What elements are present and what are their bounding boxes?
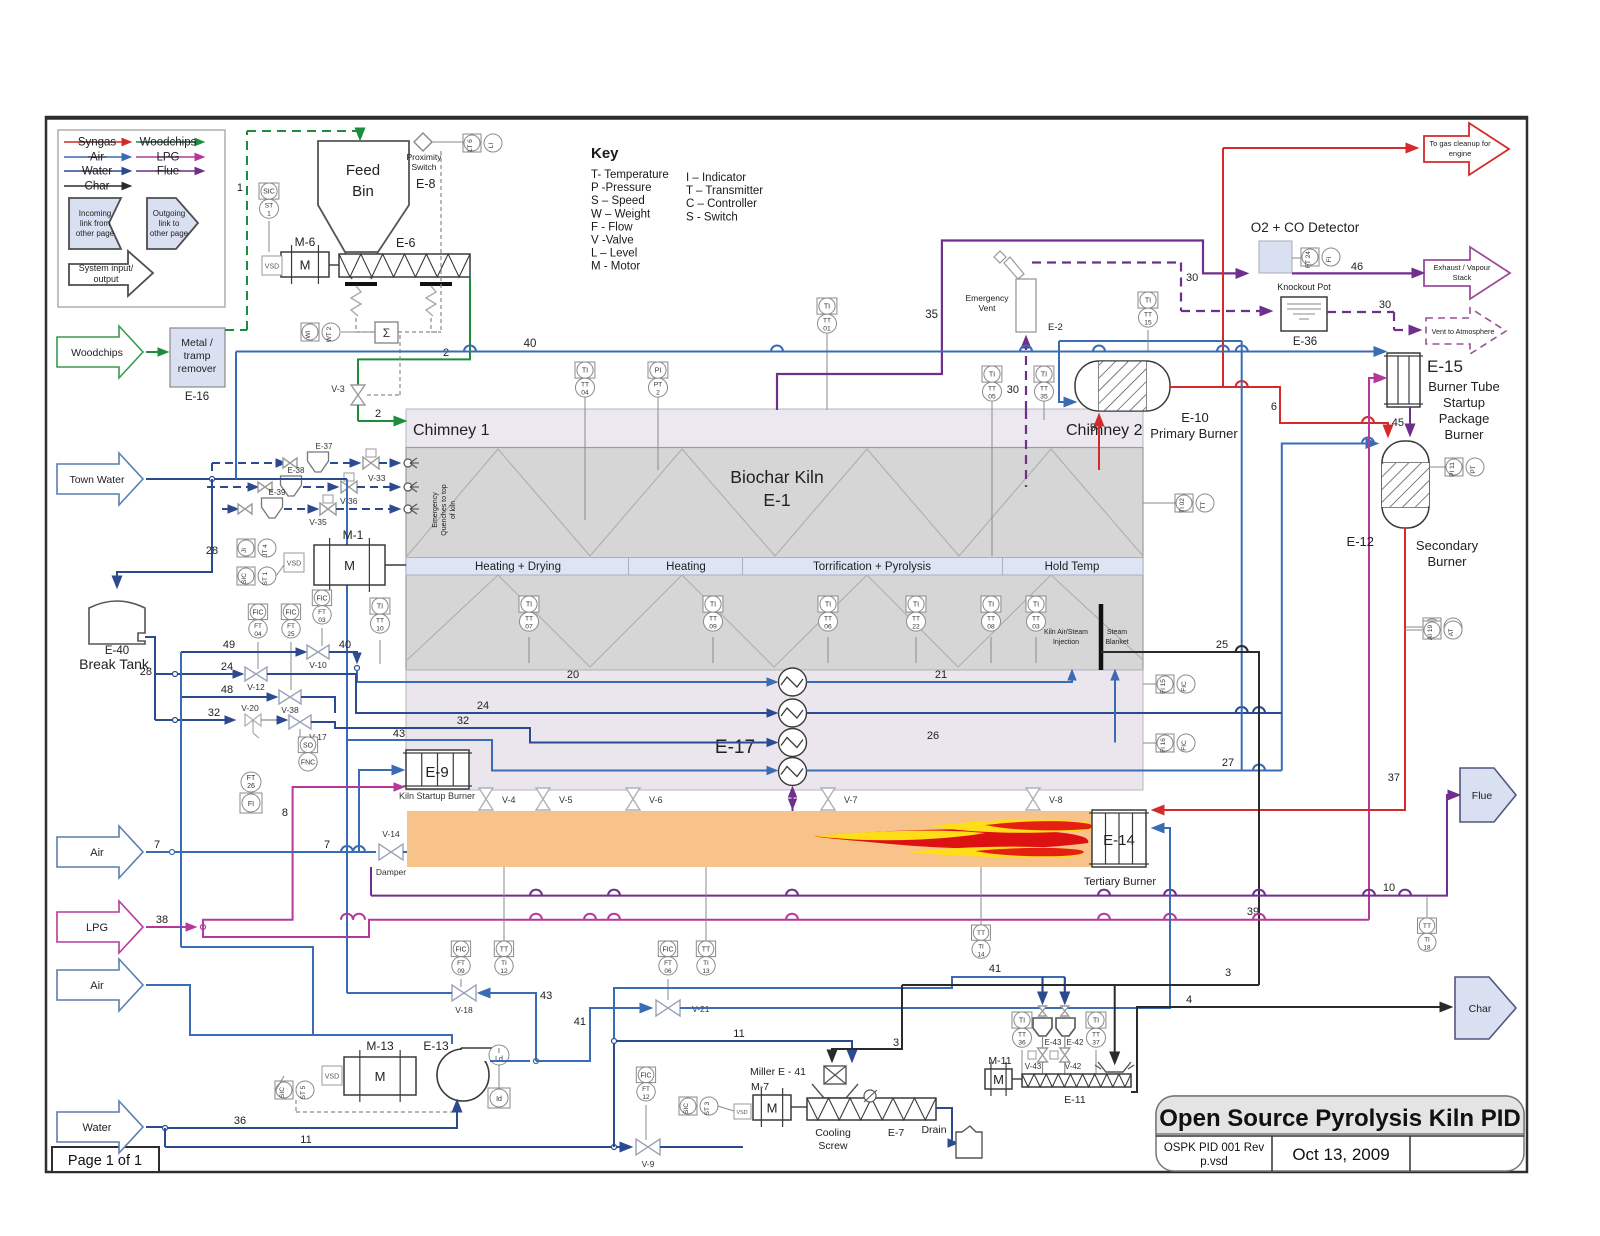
- svg-text:E-39: E-39: [269, 488, 286, 497]
- speed controller SIC/ST-1 for M-6: [259, 183, 279, 218]
- valve V-42: [1064, 1036, 1066, 1048]
- air input arrow 2: [57, 959, 143, 1011]
- svg-text:E-43: E-43: [1045, 1038, 1062, 1047]
- water line 20 to coil 1: [357, 670, 770, 682]
- quench dashed line row 1 with tank E-37: [212, 462, 278, 464]
- temperature indicator TI/TT-36: [1012, 1012, 1032, 1047]
- title block: [1156, 1096, 1524, 1171]
- svg-text:VSD: VSD: [325, 1074, 339, 1081]
- svg-text:Air: Air: [90, 847, 104, 859]
- kiln startup burner E-9 box: [406, 750, 469, 789]
- valve V-43: [1042, 1036, 1044, 1048]
- svg-text:E-42: E-42: [1067, 1038, 1084, 1047]
- flow indicator pair near line 27: [1156, 734, 1195, 752]
- summation box: [375, 322, 398, 343]
- heat exchanger coil 4 of E-17: [779, 758, 807, 786]
- instrument line PT-2 into kiln: [657, 396, 659, 470]
- svg-text:08: 08: [987, 624, 995, 631]
- svg-text:Page 1 of 1: Page 1 of 1: [68, 1153, 142, 1169]
- svg-text:of kiln: of kiln: [450, 501, 457, 519]
- svg-text:V-12: V-12: [247, 682, 265, 692]
- svg-text:Cooling: Cooling: [815, 1127, 851, 1139]
- svg-text:TT: TT: [977, 930, 985, 937]
- valve V-3: [351, 385, 365, 405]
- motor M-7: [753, 1095, 791, 1120]
- svg-text:LPG: LPG: [86, 922, 108, 934]
- svg-text:FI 15: FI 15: [1160, 679, 1167, 694]
- svg-text:TT: TT: [581, 382, 589, 389]
- woodchips input arrow: [57, 326, 143, 378]
- temperature indicator TI/TT-08 in kiln: [990, 637, 992, 663]
- LPG line into E-15: [1369, 378, 1378, 920]
- motor M-6: [281, 252, 329, 277]
- motor M-11: [985, 1069, 1012, 1089]
- svg-text:Kiln Air/Steam: Kiln Air/Steam: [1044, 629, 1088, 636]
- knockout pot E-36: [1281, 297, 1327, 331]
- svg-text:Screw: Screw: [818, 1140, 848, 1152]
- svg-text:Tertiary Burner: Tertiary Burner: [1084, 876, 1156, 888]
- svg-text:AT: AT: [1448, 629, 1455, 637]
- svg-text:TI: TI: [825, 601, 831, 609]
- svg-text:TI: TI: [377, 603, 383, 611]
- svg-text:M-7: M-7: [751, 1081, 769, 1093]
- E-17 band (kiln bottom): [406, 670, 1143, 790]
- svg-text:26: 26: [927, 730, 939, 742]
- valve V-8: [1026, 788, 1040, 810]
- legend water: [64, 170, 122, 172]
- heat exchanger coil 3 of E-17: [779, 729, 807, 757]
- flue line from damper: [370, 867, 372, 896]
- svg-text:Chimney 2: Chimney 2: [1066, 422, 1143, 439]
- svg-text:E-6: E-6: [396, 236, 416, 250]
- svg-text:FT: FT: [254, 623, 262, 630]
- svg-text:FT 24: FT 24: [1305, 251, 1312, 268]
- break tank outlet line 28: [145, 637, 155, 720]
- svg-text:TI: TI: [989, 371, 995, 379]
- speed controller SIC/ST-1 for M-1: [237, 567, 276, 585]
- svg-text:E-36: E-36: [1293, 336, 1317, 348]
- svg-text:24: 24: [221, 661, 233, 673]
- svg-text:V-33: V-33: [368, 473, 386, 483]
- legend outgoing link: [147, 198, 198, 249]
- biochar kiln E-1 body: [406, 448, 1143, 671]
- svg-text:V-10: V-10: [309, 660, 327, 670]
- svg-text:TI: TI: [710, 601, 716, 609]
- water line 32 with valves V-20 and V-17: [175, 719, 230, 721]
- LPG line 38 from arrow: [146, 926, 188, 928]
- svg-text:C – Controller: C – Controller: [686, 198, 757, 210]
- svg-text:24: 24: [477, 700, 489, 712]
- svg-text:TT: TT: [376, 618, 384, 625]
- legend air: [64, 156, 122, 158]
- air input arrow 1: [57, 826, 143, 878]
- svg-text:JI: JI: [241, 548, 248, 553]
- motor M-13: [344, 1057, 416, 1095]
- metal / tramp remover E-16: [170, 328, 225, 387]
- svg-text:41: 41: [989, 963, 1001, 975]
- svg-text:V-20: V-20: [241, 703, 259, 713]
- temperature indicator TT-12/TI: [494, 941, 513, 975]
- svg-text:LT 6: LT 6: [467, 139, 474, 152]
- svg-text:40: 40: [524, 338, 537, 350]
- svg-text:JT 4: JT 4: [262, 544, 269, 557]
- vent to atmosphere arrow (dashed): [1426, 308, 1506, 354]
- svg-text:Incoming: Incoming: [79, 209, 111, 218]
- air line 43 upper: [347, 740, 770, 993]
- flow controller FIC/FT-06: [658, 941, 677, 975]
- svg-text:S - Switch: S - Switch: [686, 211, 738, 223]
- svg-text:V-9: V-9: [642, 1159, 655, 1169]
- svg-text:TI: TI: [1145, 297, 1151, 305]
- svg-text:10: 10: [1383, 882, 1395, 894]
- VSD for M-1: [284, 553, 304, 572]
- svg-text:V-14: V-14: [382, 829, 400, 839]
- syngas line 5 into E-10: [1098, 420, 1100, 470]
- svg-text:V -Valve: V -Valve: [591, 235, 634, 247]
- water line 24 with valve V-12: [175, 673, 238, 675]
- svg-text:2: 2: [656, 390, 660, 397]
- temperature indicator TT-14/TI under flame: [972, 925, 991, 958]
- air line after V-21 to E-14 and E-11: [680, 828, 1170, 1008]
- svg-text:TT: TT: [709, 616, 717, 623]
- char inlet chute to E-11: [1098, 1062, 1131, 1072]
- svg-text:E-1: E-1: [763, 490, 790, 510]
- svg-text:Vent to Atmosphere: Vent to Atmosphere: [1432, 327, 1495, 336]
- svg-text:Heating: Heating: [666, 561, 706, 573]
- woodchips dashed conveyor line 1: [246, 131, 248, 330]
- svg-text:FIC: FIC: [640, 1072, 651, 1079]
- svg-text:05: 05: [988, 394, 996, 401]
- svg-text:M: M: [993, 1072, 1004, 1087]
- temperature indicator TI/TT-03 in kiln: [1035, 637, 1037, 663]
- svg-text:E-2: E-2: [1048, 322, 1063, 333]
- svg-text:M-1: M-1: [343, 528, 364, 542]
- svg-text:7: 7: [154, 839, 160, 851]
- svg-text:E-15: E-15: [1427, 357, 1463, 376]
- VSD for M-6: [262, 256, 282, 275]
- water line 48 with valve V-38: [181, 696, 272, 698]
- air line 40 drop to line 27: [1241, 341, 1243, 771]
- svg-text:TT: TT: [525, 616, 533, 623]
- svg-text:Biochar Kiln: Biochar Kiln: [730, 467, 823, 487]
- char hopper E-43: [1033, 1018, 1052, 1036]
- svg-text:Burner Tube: Burner Tube: [1428, 379, 1500, 394]
- flue dashed line E-2 to knockout pot: [1032, 261, 1181, 263]
- svg-text:Hold Temp: Hold Temp: [1045, 561, 1100, 573]
- svg-text:O2 + CO Detector: O2 + CO Detector: [1251, 220, 1360, 235]
- svg-text:Emergency: Emergency: [432, 492, 439, 528]
- instrument pair top right of E-12: [1405, 629, 1422, 631]
- to gas cleanup for engine arrow: [1424, 123, 1509, 175]
- svg-text:E-13: E-13: [423, 1039, 449, 1053]
- temperature indicator TI/TT-35: [1034, 366, 1054, 401]
- svg-text:TT: TT: [824, 616, 832, 623]
- svg-text:Open Source Pyrolysis Kiln PID: Open Source Pyrolysis Kiln PID: [1159, 1105, 1520, 1132]
- svg-text:36: 36: [234, 1115, 246, 1127]
- pressure indicator PI/PT-2: [648, 362, 668, 397]
- flow controller FIC/FT-09: [451, 941, 470, 975]
- svg-text:Woodchips: Woodchips: [71, 347, 123, 359]
- instrument line TT-04 into kiln: [584, 396, 586, 520]
- svg-text:T – Transmitter: T – Transmitter: [686, 185, 763, 197]
- svg-text:TT: TT: [1200, 502, 1207, 510]
- svg-text:V-7: V-7: [844, 795, 858, 805]
- svg-text:37: 37: [1388, 772, 1400, 784]
- proximity switch signal dashed: [440, 151, 442, 332]
- svg-text:VSD: VSD: [287, 561, 301, 568]
- svg-text:32: 32: [208, 707, 220, 719]
- legend syngas: [64, 141, 122, 143]
- svg-text:PI 11: PI 11: [1449, 462, 1456, 477]
- svg-text:V-6: V-6: [649, 795, 663, 805]
- char line 4 to char output: [1131, 1007, 1444, 1092]
- svg-text:PT: PT: [1470, 465, 1477, 473]
- flow indicator pair near line 25: [1156, 675, 1195, 693]
- svg-text:FIC: FIC: [285, 609, 296, 616]
- svg-text:TT: TT: [1040, 386, 1048, 393]
- svg-text:F - Flow: F - Flow: [591, 221, 633, 233]
- svg-text:E-8: E-8: [416, 177, 436, 191]
- svg-text:Startup: Startup: [1443, 395, 1485, 410]
- svg-text:TT: TT: [988, 386, 996, 393]
- valve V-4: [479, 788, 493, 810]
- kiln right edge instrument line: [1143, 502, 1178, 504]
- flue output arrow: [1460, 768, 1516, 822]
- svg-text:ST 1: ST 1: [262, 571, 269, 585]
- svg-text:30: 30: [1007, 384, 1019, 396]
- level indicators LT/LI: [463, 134, 502, 152]
- svg-text:03: 03: [318, 617, 326, 624]
- svg-text:V-4: V-4: [502, 795, 516, 805]
- svg-text:Torrification + Pyrolysis: Torrification + Pyrolysis: [813, 561, 931, 573]
- svg-text:FT: FT: [287, 623, 295, 630]
- air input 2 line: [146, 985, 313, 1035]
- svg-text:p.vsd: p.vsd: [1200, 1156, 1228, 1168]
- temperature indicator TI/TT-05: [982, 366, 1002, 401]
- water line 11: [164, 1128, 166, 1147]
- LPG input arrow: [57, 901, 143, 953]
- svg-text:04: 04: [581, 390, 589, 397]
- svg-text:SO: SO: [303, 742, 314, 749]
- heat exchanger coil 1 of E-17: [779, 668, 807, 696]
- svg-text:22: 22: [912, 624, 920, 631]
- load cell spring right: [426, 286, 436, 316]
- air line 25 black from steam blanket: [1101, 652, 1259, 985]
- temperature indicator TI/TT-01: [817, 298, 837, 333]
- svg-text:M: M: [344, 558, 355, 573]
- quench dashed line row 3 with tank E-39: [222, 508, 230, 510]
- valve V-21: [656, 1000, 680, 1016]
- blower E-13: [437, 1049, 489, 1101]
- svg-text:V-3: V-3: [331, 384, 345, 394]
- svg-text:WT 2: WT 2: [326, 326, 333, 342]
- svg-text:VSD: VSD: [736, 1110, 747, 1116]
- legend lpg: [136, 156, 195, 158]
- flue dashed line to emergency vent: [1025, 344, 1027, 410]
- svg-text:TT: TT: [702, 946, 711, 953]
- temperature indicator TI/TT-07 in kiln: [528, 637, 530, 663]
- drain from cooling screw: [936, 1108, 952, 1140]
- E-12 instrument pair upper: [1429, 466, 1448, 468]
- svg-text:Knockout Pot: Knockout Pot: [1277, 282, 1331, 292]
- svg-text:L – Level: L – Level: [591, 248, 637, 260]
- svg-text:other page: other page: [150, 229, 189, 238]
- svg-text:01: 01: [823, 326, 831, 333]
- valve V-5: [536, 788, 550, 810]
- syngas line 37 E-12 to E-14: [1160, 528, 1405, 810]
- svg-text:M: M: [767, 1101, 778, 1116]
- O2 + CO detector: [1259, 241, 1292, 273]
- svg-text:1: 1: [237, 182, 243, 194]
- instrument line TT-01 into kiln: [826, 332, 828, 410]
- weight indicator WI / WT-2: [301, 323, 340, 341]
- svg-text:41: 41: [574, 1016, 586, 1028]
- svg-text:TI: TI: [526, 601, 532, 609]
- svg-text:Emergency: Emergency: [966, 293, 1010, 303]
- svg-text:FIC: FIC: [252, 609, 263, 616]
- svg-text:49: 49: [223, 639, 235, 651]
- svg-text:Outgoing: Outgoing: [153, 209, 185, 218]
- drain jug: [956, 1126, 982, 1158]
- heat exchanger coil 2 of E-17: [779, 699, 807, 727]
- chimney band (kiln top): [406, 409, 1143, 448]
- svg-text:V-36: V-36: [340, 496, 358, 506]
- load cell bars under E-6: [345, 282, 377, 286]
- svg-text:35: 35: [925, 309, 938, 321]
- svg-text:15: 15: [1144, 320, 1152, 327]
- svg-text:W – Weight: W – Weight: [591, 208, 651, 220]
- svg-text:M: M: [375, 1069, 386, 1084]
- svg-text:TI: TI: [582, 367, 588, 375]
- svg-text:E-12: E-12: [1347, 534, 1374, 549]
- blue air line upper branch: [1059, 340, 1242, 342]
- svg-text:tramp: tramp: [184, 350, 211, 362]
- svg-text:TT: TT: [823, 318, 831, 325]
- steam line up arrow at blanket: [1114, 676, 1116, 743]
- svg-text:FT: FT: [457, 960, 465, 967]
- svg-text:30: 30: [1379, 299, 1391, 311]
- woodchips line 2 into kiln: [357, 405, 359, 421]
- svg-text:TT: TT: [1032, 616, 1040, 623]
- svg-text:M-13: M-13: [366, 1039, 394, 1053]
- svg-text:link from: link from: [80, 219, 111, 228]
- svg-text:Exhaust / Vapour: Exhaust / Vapour: [1434, 263, 1491, 272]
- svg-text:TT: TT: [1144, 312, 1152, 319]
- svg-text:FI 16: FI 16: [1160, 738, 1167, 753]
- legend char: [64, 185, 122, 187]
- svg-text:FNC: FNC: [301, 759, 315, 766]
- svg-text:TT: TT: [500, 946, 509, 953]
- svg-text:30: 30: [1186, 272, 1198, 284]
- town water input arrow: [57, 453, 143, 505]
- svg-text:E-9: E-9: [425, 764, 448, 781]
- svg-text:FIC: FIC: [1181, 740, 1188, 751]
- svg-text:25: 25: [287, 631, 295, 638]
- svg-text:2: 2: [375, 408, 381, 420]
- primary burner E-10: [1075, 361, 1170, 411]
- svg-text:WI: WI: [305, 330, 312, 338]
- svg-text:Miller E - 41: Miller E - 41: [750, 1066, 806, 1078]
- water riser to line 11 upper: [613, 1041, 615, 1147]
- svg-text:M - Motor: M - Motor: [591, 261, 640, 273]
- svg-text:48: 48: [221, 684, 233, 696]
- svg-text:E-7: E-7: [888, 1127, 905, 1139]
- svg-text:FI: FI: [1326, 256, 1333, 262]
- flow controller FIC/FT-03: [312, 590, 331, 624]
- svg-text:Switch: Switch: [411, 162, 436, 172]
- svg-text:TI: TI: [988, 601, 994, 609]
- air line 40 left riser: [235, 352, 237, 480]
- svg-text:AI 19: AI 19: [1427, 625, 1434, 641]
- char line 3 into miller: [832, 985, 902, 1056]
- emergency vent stack pipe: [1004, 257, 1024, 279]
- blue air line into E-10: [1059, 341, 1068, 402]
- legend system input/output arrow: [69, 251, 153, 296]
- svg-text:38: 38: [156, 914, 168, 926]
- flow controller FIC/FT-12: [636, 1067, 655, 1101]
- svg-text:engine: engine: [1449, 149, 1472, 158]
- svg-text:Town Water: Town Water: [69, 474, 125, 486]
- svg-text:Air: Air: [90, 980, 104, 992]
- flame lower tongue: [905, 847, 1084, 858]
- svg-text:SIC: SIC: [263, 188, 275, 196]
- air line 41 to valve V-21: [536, 1008, 644, 1061]
- miller E-41 crusher: [824, 1066, 846, 1084]
- svg-text:output: output: [93, 274, 119, 284]
- svg-text:E-38: E-38: [288, 466, 305, 475]
- svg-text:1: 1: [267, 211, 271, 218]
- blower outlet line to junction: [490, 1060, 530, 1062]
- svg-text:3: 3: [893, 1037, 899, 1049]
- miller feed funnel: [812, 1084, 858, 1098]
- svg-text:4: 4: [1186, 994, 1192, 1006]
- LPG line 8 branch to E-9: [203, 787, 396, 927]
- temperature indicator TI/TT-04: [575, 362, 595, 397]
- svg-text:TI: TI: [824, 303, 830, 311]
- svg-text:14: 14: [977, 951, 985, 958]
- svg-text:07: 07: [525, 624, 533, 631]
- legend box: [58, 130, 225, 307]
- screw conveyor E-6: [339, 254, 470, 277]
- air line to E-9 burner: [359, 770, 396, 852]
- svg-text:M-6: M-6: [295, 235, 316, 249]
- page number box: [52, 1147, 159, 1172]
- svg-text:TI: TI: [501, 960, 507, 967]
- svg-text:System input/: System input/: [79, 263, 134, 273]
- svg-text:TI: TI: [1424, 936, 1430, 943]
- svg-text:6: 6: [1271, 401, 1277, 413]
- svg-text:SIC: SIC: [241, 573, 248, 584]
- char output arrow: [1455, 977, 1516, 1039]
- woodchips flow arrow to E-16: [146, 351, 160, 353]
- air line down to hopper valves: [614, 977, 1065, 1041]
- control dashed line to blower: [295, 1100, 297, 1112]
- air branch to blower: [181, 947, 452, 1044]
- left air riser: [180, 652, 182, 947]
- small valve above E-43: [1039, 1006, 1047, 1016]
- svg-text:06: 06: [664, 968, 672, 975]
- svg-text:Burner: Burner: [1444, 427, 1484, 442]
- water line 49 with valve V-10: [181, 651, 301, 653]
- svg-text:8: 8: [282, 807, 288, 819]
- feed bin discharge funnel: [345, 252, 358, 268]
- exhaust / vapour stack arrow: [1424, 247, 1510, 299]
- svg-text:SIC: SIC: [683, 1103, 690, 1114]
- svg-text:I – Indicator: I – Indicator: [686, 172, 746, 184]
- svg-text:FT: FT: [664, 960, 672, 967]
- air line 27 to E-17: [807, 770, 1282, 772]
- svg-text:Kiln Startup Burner: Kiln Startup Burner: [399, 791, 475, 801]
